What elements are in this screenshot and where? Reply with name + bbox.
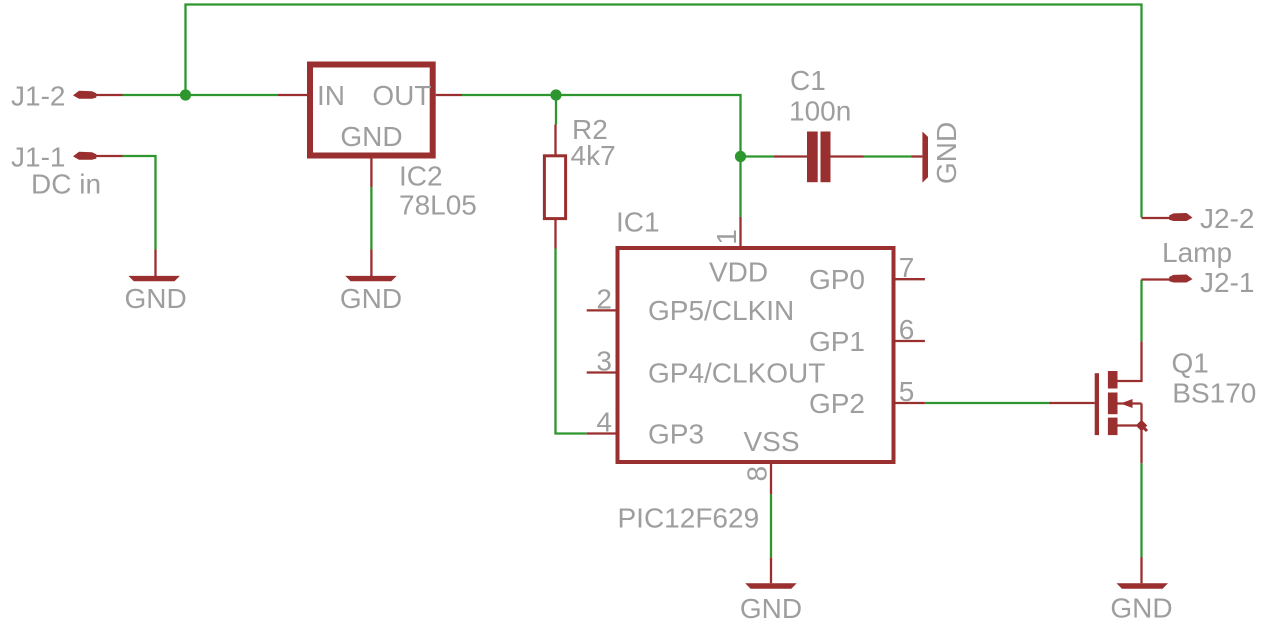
wire IC2 OUT to VDD corner [462, 95, 741, 217]
wire R2 bottom to GP3 [556, 249, 587, 434]
gate pin [1049, 402, 1095, 404]
pin 8 VSS [770, 462, 772, 494]
svg-text:GND: GND [125, 283, 187, 314]
source pin [1140, 426, 1142, 464]
svg-text:GND: GND [1110, 593, 1172, 624]
svg-text:GND: GND [340, 283, 402, 314]
svg-text:78L05: 78L05 [399, 189, 477, 220]
svg-text:IC2: IC2 [399, 161, 443, 192]
ground GND (Q1) [1110, 557, 1172, 624]
transistor Q1 BS170 [1049, 341, 1147, 463]
svg-text:GP1: GP1 [809, 326, 865, 357]
svg-text:GP3: GP3 [648, 418, 704, 449]
wire Q1 source to GND [1140, 463, 1142, 557]
svg-text:4: 4 [596, 407, 612, 438]
pin 1 VDD [739, 217, 741, 248]
pin 4 [587, 432, 618, 434]
wire top bus from J1-2 node to J2-2 [186, 5, 1142, 218]
wire J1-1 to GND [123, 156, 156, 250]
ground GND (IC2) [340, 250, 402, 315]
gate bar [1095, 373, 1099, 435]
svg-text:GP5/CLKIN: GP5/CLKIN [648, 295, 794, 326]
svg-text:IC1: IC1 [616, 206, 660, 237]
wire J2-1 to Q1 drain [1140, 280, 1142, 342]
node junction at J1-2 net [180, 89, 191, 100]
svg-text:Q1: Q1 [1172, 348, 1209, 379]
resistor R2 [544, 125, 565, 249]
svg-text:J2-2: J2-2 [1200, 203, 1254, 234]
svg-text:J2-1: J2-1 [1200, 267, 1254, 298]
node junction at C1 net [735, 151, 746, 162]
node junction at R2 top [550, 89, 561, 100]
connector pin J2-1 [1142, 275, 1193, 283]
svg-text:VSS: VSS [743, 426, 799, 457]
pin 7 [894, 278, 925, 280]
channel bar bottom [1108, 418, 1118, 436]
svg-text:OUT: OUT [372, 80, 431, 111]
svg-text:5: 5 [899, 376, 915, 407]
channel bar top [1108, 371, 1118, 389]
ground GND (C1, rotated) [912, 122, 963, 184]
svg-text:BS170: BS170 [1172, 377, 1256, 408]
capacitor C1 [774, 132, 864, 183]
svg-text:VDD: VDD [709, 257, 768, 288]
svg-text:GP4/CLKOUT: GP4/CLKOUT [648, 357, 825, 388]
drain lead [1118, 341, 1142, 381]
wire GP2 to Q1 gate [925, 402, 1049, 404]
svg-text:8: 8 [742, 466, 773, 482]
svg-text:Lamp: Lamp [1162, 237, 1232, 268]
wire J1-2 to IC2 IN [123, 94, 279, 96]
wire R2 top drop [555, 95, 557, 125]
svg-text:4k7: 4k7 [571, 140, 616, 171]
wire IC2 GND down [370, 187, 372, 250]
source lead [1118, 424, 1142, 426]
svg-text:PIC12F629: PIC12F629 [618, 502, 760, 533]
pin 2 [587, 309, 618, 311]
pin 6 [894, 340, 925, 342]
svg-text:1: 1 [711, 229, 742, 245]
ground GND (J1-1) [125, 250, 187, 315]
svg-text:C1: C1 [790, 65, 826, 96]
svg-text:J1-2: J1-2 [11, 81, 65, 112]
svg-text:GP0: GP0 [809, 264, 865, 295]
svg-text:100n: 100n [789, 96, 851, 127]
ground GND (VSS) [740, 558, 802, 624]
source junction [1136, 420, 1147, 431]
wire C1 right to GND [864, 155, 912, 157]
connector pin J1-1 [73, 152, 123, 160]
pin 3 [587, 371, 618, 373]
bulk arrow [1118, 402, 1142, 404]
svg-text:IN: IN [317, 80, 345, 111]
svg-text:DC in: DC in [31, 168, 101, 199]
svg-text:GND: GND [740, 593, 802, 624]
wire VSS to GND [770, 494, 772, 557]
svg-text:6: 6 [899, 314, 915, 345]
svg-text:3: 3 [596, 346, 612, 377]
svg-text:GND: GND [931, 122, 962, 184]
channel bar middle [1108, 393, 1118, 415]
connector pin J2-2 [1142, 213, 1193, 221]
wire junction to C1 left [741, 155, 775, 157]
svg-text:2: 2 [596, 283, 612, 314]
svg-text:GP2: GP2 [809, 388, 865, 419]
IC IC1 PIC12F629 [587, 217, 925, 494]
connector pin J1-2 [73, 91, 123, 99]
svg-text:GND: GND [340, 121, 402, 152]
regulator IC2 78L05 [278, 65, 462, 188]
pin 5 [894, 402, 925, 404]
svg-text:7: 7 [899, 252, 915, 283]
